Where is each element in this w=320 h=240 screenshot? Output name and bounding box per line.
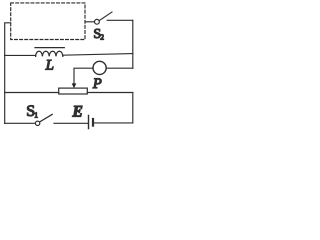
switch S2 pivot xyxy=(95,19,100,24)
wire inductor to right rail xyxy=(63,54,133,56)
svg-text:E: E xyxy=(72,104,83,121)
wire motor right to rail xyxy=(106,67,133,69)
wire inductor row left xyxy=(5,54,36,56)
wire S1 to battery xyxy=(54,122,88,124)
wire S2 to right rail xyxy=(107,19,133,21)
switch S1 lever xyxy=(40,114,52,121)
wire battery to bottom right corner xyxy=(94,122,133,124)
inductor core bar xyxy=(35,47,64,49)
dashed box (component under test) xyxy=(11,3,85,40)
wire motor left to wiper xyxy=(74,68,93,84)
svg-text:P: P xyxy=(92,76,102,92)
wire bottom left xyxy=(5,122,36,124)
svg-text:1: 1 xyxy=(34,110,38,119)
battery E long plate xyxy=(88,115,90,128)
svg-text:2: 2 xyxy=(100,32,104,41)
wire right rail top (S2 to motor row) xyxy=(132,20,134,68)
wire left rail to rheostat xyxy=(5,92,59,94)
wiper arrowhead xyxy=(72,83,77,88)
wire left rail xyxy=(5,23,11,124)
battery E short plate xyxy=(92,119,94,126)
motor M circle xyxy=(93,61,106,74)
switch S1 pivot xyxy=(35,121,39,125)
rheostat P body xyxy=(59,88,88,94)
wire rheostat to right rail xyxy=(87,92,133,94)
wire right rail bottom xyxy=(132,93,134,123)
switch S2 stub wire xyxy=(85,21,94,23)
switch S2 lever xyxy=(100,12,112,20)
inductor L coil xyxy=(36,51,63,56)
svg-text:L: L xyxy=(45,58,54,74)
